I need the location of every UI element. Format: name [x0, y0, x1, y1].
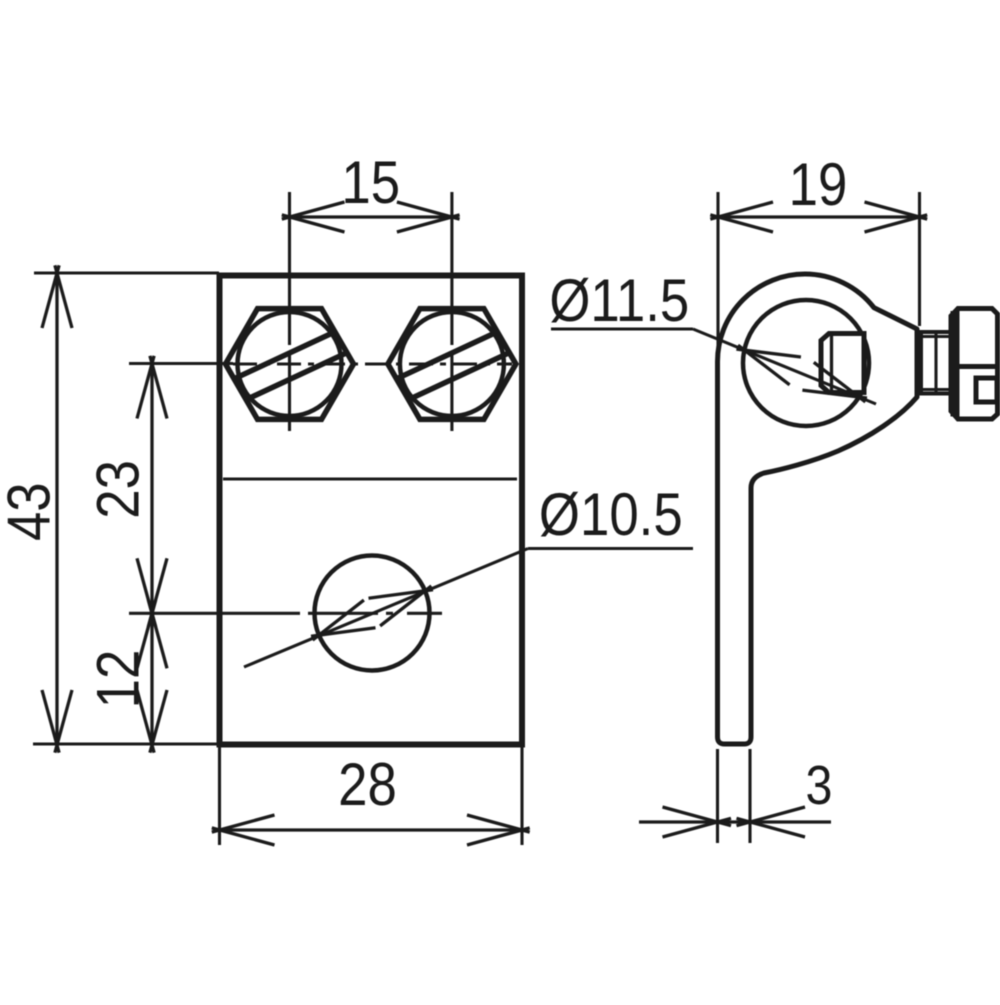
svg-text:28: 28: [338, 751, 397, 818]
svg-text:Ø10.5: Ø10.5: [539, 481, 683, 548]
svg-text:19: 19: [789, 151, 848, 218]
svg-text:12: 12: [84, 650, 151, 709]
svg-text:Ø11.5: Ø11.5: [549, 267, 689, 334]
svg-text:43: 43: [0, 482, 62, 541]
svg-text:23: 23: [84, 460, 151, 519]
svg-text:3: 3: [806, 754, 833, 816]
svg-text:15: 15: [341, 149, 400, 216]
